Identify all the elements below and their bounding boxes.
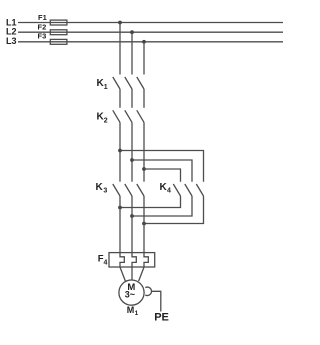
wire L1 rail xyxy=(18,22,283,24)
motor M1 xyxy=(119,280,144,317)
contactor K3 xyxy=(96,182,145,196)
junction K4 return phase3 xyxy=(142,222,146,226)
svg-text:1: 1 xyxy=(135,310,139,317)
wire phase3 K1 to K2 xyxy=(143,89,145,108)
wire K4 feed phase3 xyxy=(144,169,181,182)
svg-text:1: 1 xyxy=(104,84,108,91)
junction K4 return phase1 xyxy=(118,206,122,210)
wire K4 return pole1 xyxy=(120,196,181,208)
wire L3 rail xyxy=(18,41,283,43)
wire phase1 K2 to K3 xyxy=(119,122,121,181)
svg-text:L3: L3 xyxy=(6,36,17,46)
junction K4 return phase2 xyxy=(130,214,134,218)
wire F4 to motor right xyxy=(139,267,144,281)
svg-text:L2: L2 xyxy=(6,26,17,36)
svg-text:PE: PE xyxy=(154,311,169,323)
overload relay F4 xyxy=(98,253,155,268)
wire L2 rail xyxy=(18,31,283,33)
wire phase2 K3 to F4 xyxy=(131,196,133,253)
svg-text:3: 3 xyxy=(103,188,107,195)
wire phase3 K3 to F4 xyxy=(143,196,145,253)
svg-text:M: M xyxy=(127,305,135,315)
wire K4 feed phase1 xyxy=(120,151,204,182)
wire K4 feed phase2 xyxy=(132,160,192,182)
wire phase1 K3 to F4 xyxy=(119,196,121,253)
svg-text:F2: F2 xyxy=(38,23,47,32)
svg-text:2: 2 xyxy=(104,117,108,124)
svg-text:4: 4 xyxy=(104,259,108,266)
svg-text:F3: F3 xyxy=(38,31,47,40)
wire F4 to motor left xyxy=(120,267,125,281)
wire phase2 K2 to K3 xyxy=(131,122,133,181)
junction K4 feed tap phase2 xyxy=(130,158,134,162)
junction L3 tap xyxy=(142,40,146,44)
junction L2 tap xyxy=(130,30,134,34)
svg-text:3~: 3~ xyxy=(125,290,135,300)
fuse F2 xyxy=(38,23,67,35)
PE terminal arc xyxy=(145,287,151,295)
wire K4 return pole3 xyxy=(144,196,204,224)
junction K4 feed tap phase1 xyxy=(118,149,122,153)
contactor K4 xyxy=(160,182,204,196)
fuse F3 xyxy=(38,31,67,44)
svg-text:K: K xyxy=(96,182,104,193)
wire phase1 drop to K1 xyxy=(119,23,121,75)
svg-text:F1: F1 xyxy=(38,13,47,22)
wire phase3 drop to K1 xyxy=(143,42,145,75)
svg-text:4: 4 xyxy=(167,188,171,195)
wire phase2 K1 to K2 xyxy=(131,89,133,108)
wire phase3 K2 to K3 xyxy=(143,122,145,181)
contactor K2 xyxy=(97,110,145,124)
junction L1 tap xyxy=(118,21,122,25)
wire PE xyxy=(152,291,161,311)
junction K4 feed tap phase3 xyxy=(142,167,146,171)
wire F4 to motor centre xyxy=(131,267,133,279)
contactor K1 xyxy=(97,77,145,91)
wire K4 return pole2 xyxy=(132,196,192,216)
wire phase2 drop to K1 xyxy=(131,32,133,74)
fuse F1 xyxy=(38,13,67,25)
wire phase1 K1 to K2 xyxy=(119,89,121,108)
